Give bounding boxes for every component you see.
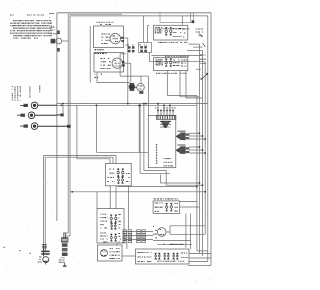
- wire T1 outs: [187, 44, 203, 50]
- lock motor box: [94, 53, 124, 73]
- wire bottom outs: [189, 251, 211, 262]
- terminal N: [17, 112, 35, 119]
- sensor harness funnel: [160, 121, 171, 128]
- terminal block labels: [12, 86, 40, 102]
- wire plug links: [124, 232, 153, 240]
- scan speckle: [88, 58, 89, 59]
- terminal L1: [20, 102, 38, 109]
- sensor pins: [155, 107, 176, 115]
- wire latch down: [110, 186, 128, 229]
- wire latch runs: [118, 175, 203, 187]
- sensor plug upper: [176, 131, 206, 141]
- schematic border frame: [57, 13, 211, 266]
- latch switch box: [106, 163, 132, 185]
- note text block: [10, 13, 54, 39]
- chassis grommet: [50, 27, 68, 52]
- terminal stubs: [95, 49, 107, 78]
- oven fuse: [193, 29, 205, 48]
- selector box: [139, 42, 152, 52]
- wire broil out2: [180, 71, 199, 97]
- convection motor: [153, 226, 205, 239]
- wire mid drop A: [97, 105, 149, 152]
- wire bus H2: [57, 104, 197, 106]
- stray marks: [3, 247, 31, 254]
- door switch row2: [100, 233, 121, 243]
- bake relay marks: [173, 28, 185, 38]
- lock motor: [112, 58, 125, 68]
- sensor connector: [157, 115, 176, 119]
- wire lamp out: [124, 38, 131, 104]
- wire bus tap pair: [62, 105, 64, 115]
- cooling fan motor: [129, 76, 149, 115]
- wire sensor risers: [158, 104, 170, 110]
- latch contacts: [117, 168, 130, 183]
- connector plug A: [43, 244, 45, 257]
- latch label: [109, 169, 111, 170]
- wire box B link: [117, 243, 136, 256]
- sensor bottom glyph: [163, 158, 173, 166]
- box B motor: [101, 248, 121, 259]
- wire selector left: [120, 54, 141, 76]
- sensor vertical label: [156, 144, 157, 146]
- revision tab box: [160, 13, 194, 30]
- broil relay contacts: [165, 61, 167, 63]
- broil relay marks: [173, 60, 187, 67]
- wire motor feed: [97, 72, 130, 83]
- wire latch relay: [180, 202, 200, 250]
- wire center risers: [144, 16, 150, 43]
- oven lamp label: [97, 22, 98, 23]
- wire neutral drop: [77, 105, 110, 159]
- wire broil out1: [167, 71, 197, 96]
- motor text: [101, 58, 103, 59]
- connector plug B: [63, 233, 65, 238]
- wire L1 feed: [38, 104, 57, 106]
- wire latch bus: [153, 240, 192, 244]
- wire selector out: [150, 53, 206, 62]
- wire sensor left1: [140, 105, 170, 173]
- bake relay contacts: [165, 30, 167, 32]
- wire inner pair: [64, 14, 70, 238]
- wire bake up: [181, 16, 183, 25]
- wire right bus C: [202, 51, 204, 257]
- wire L1 top bus: [68, 14, 208, 261]
- broil relay label: [156, 59, 157, 60]
- plug P2: [137, 230, 141, 243]
- wire pair to plug: [44, 156, 117, 245]
- wire N stub: [57, 113, 64, 116]
- wire broil out3: [186, 71, 203, 99]
- selector contacts L: [126, 45, 135, 53]
- wire right bus B: [198, 44, 200, 253]
- latch relay box: [153, 201, 180, 214]
- wire N feed: [35, 114, 57, 116]
- bottom control box: [136, 249, 190, 264]
- sensor plug lower: [176, 144, 206, 154]
- oven lamp box: [94, 26, 124, 48]
- wire right bus A: [196, 96, 198, 251]
- thermal switch: [201, 73, 209, 80]
- terminal L2: [20, 123, 38, 130]
- broil relay box: [154, 56, 190, 74]
- oven lamp: [110, 33, 124, 43]
- door switch row1: [100, 214, 121, 230]
- plug P1: [123, 230, 127, 243]
- motor box B: [98, 245, 123, 261]
- bake relay label: [155, 27, 188, 43]
- oven sensor box: [148, 115, 176, 167]
- wire to connector B: [70, 192, 205, 209]
- wire bus H1: [57, 103, 208, 105]
- latch relay toplabel: [154, 198, 157, 199]
- wire right bus D: [204, 62, 206, 235]
- bottom box glyphs: [138, 252, 188, 262]
- selector contacts R: [139, 45, 147, 53]
- temp switch: [196, 55, 206, 70]
- latch relay glyphs: [155, 203, 178, 212]
- wire sensor left2: [144, 104, 166, 175]
- lamp text: [102, 34, 104, 35]
- wire L2 run: [38, 125, 71, 128]
- wire box col: [89, 26, 91, 83]
- junction dots: [96, 105, 98, 107]
- bake relay box: [154, 25, 188, 40]
- door switch box: [97, 209, 124, 244]
